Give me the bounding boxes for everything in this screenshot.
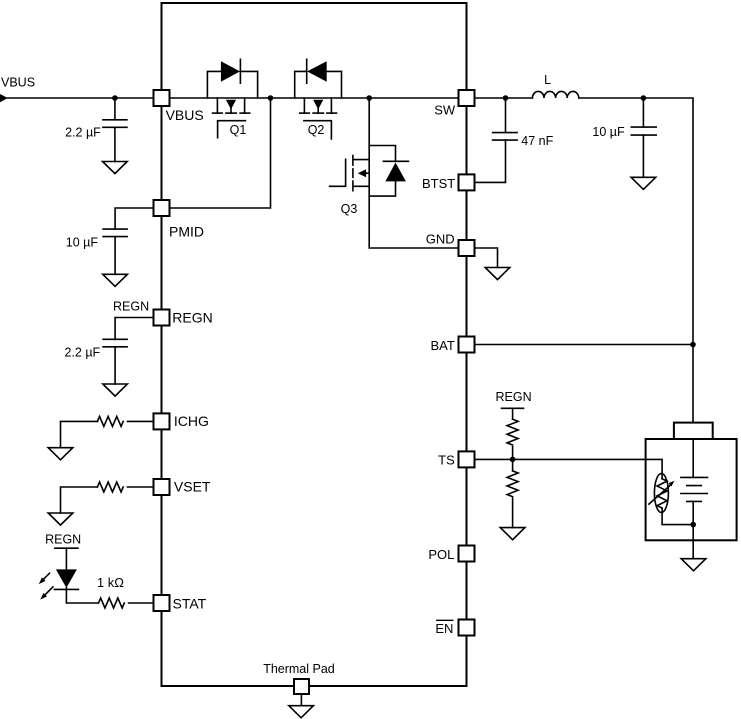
svg-text:TS: TS xyxy=(438,452,455,467)
svg-text:10 µF: 10 µF xyxy=(66,236,99,250)
svg-text:1 kΩ: 1 kΩ xyxy=(97,575,124,590)
svg-text:POL: POL xyxy=(428,547,454,562)
svg-text:EN: EN xyxy=(435,621,453,636)
svg-text:Thermal Pad: Thermal Pad xyxy=(263,662,335,676)
svg-text:STAT: STAT xyxy=(173,596,207,612)
svg-text:VSET: VSET xyxy=(174,479,211,495)
svg-text:2.2 µF: 2.2 µF xyxy=(65,126,101,140)
svg-text:REGN: REGN xyxy=(172,309,212,325)
svg-text:REGN: REGN xyxy=(45,532,81,546)
svg-text:10 µF: 10 µF xyxy=(592,125,625,139)
svg-text:ICHG: ICHG xyxy=(174,413,209,429)
svg-text:GND: GND xyxy=(426,232,455,247)
svg-text:Q3: Q3 xyxy=(341,202,358,216)
svg-text:L: L xyxy=(544,73,551,87)
svg-text:47 nF: 47 nF xyxy=(521,134,553,148)
svg-text:Q2: Q2 xyxy=(308,123,325,137)
svg-text:2.2 µF: 2.2 µF xyxy=(65,346,101,360)
svg-text:SW: SW xyxy=(434,102,456,117)
svg-text:BAT: BAT xyxy=(430,338,454,353)
svg-text:BTST: BTST xyxy=(422,176,455,191)
svg-text:VBUS: VBUS xyxy=(166,107,204,123)
svg-text:REGN: REGN xyxy=(113,299,149,313)
svg-text:Q1: Q1 xyxy=(230,123,247,137)
svg-text:PMID: PMID xyxy=(169,223,204,239)
svg-text:REGN: REGN xyxy=(496,390,532,404)
svg-text:VBUS: VBUS xyxy=(1,76,35,90)
